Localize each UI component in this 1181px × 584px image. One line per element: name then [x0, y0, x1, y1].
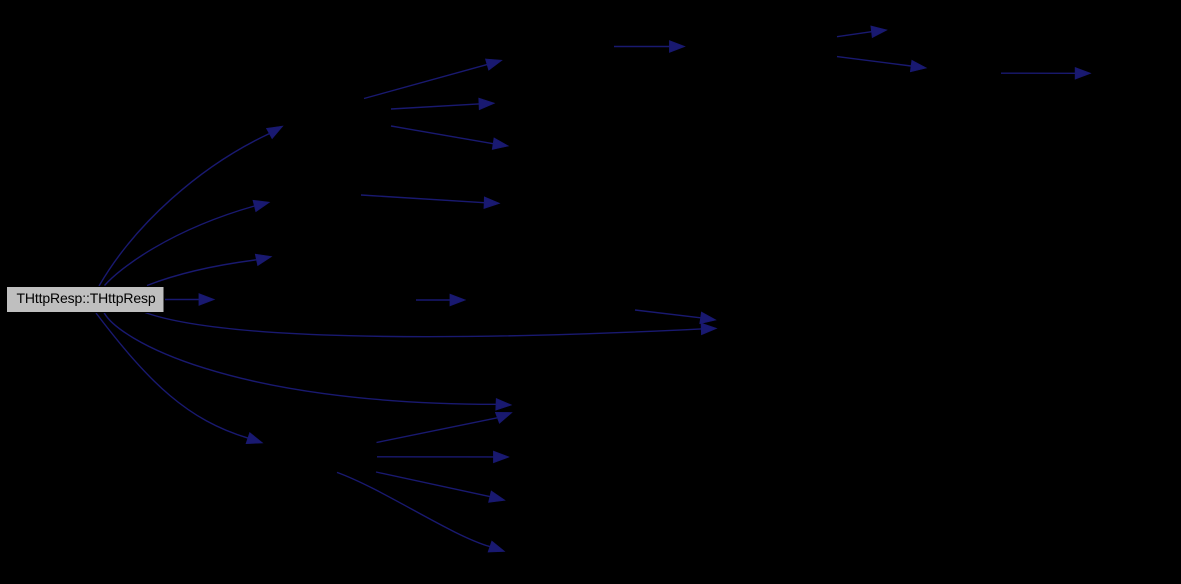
edge B to L (slight down)	[635, 310, 716, 324]
edge fan out 3 (down-right)	[376, 472, 505, 502]
edge M2 out (horizontal long)	[361, 195, 500, 209]
edge main to node K (long swoop)	[104, 313, 512, 411]
edge fan out 2 (horizontal)	[377, 451, 509, 463]
edge main to node A (short horizontal arrow)	[165, 294, 215, 306]
edge main to fan node (down curve)	[96, 313, 263, 444]
edge main to node M2 (mid curve)	[105, 200, 270, 285]
edge R3 out (horizontal)	[1001, 67, 1091, 79]
edge M1 out 3 (down-right)	[391, 126, 509, 150]
edge M1 out 2 (horizontal)	[391, 98, 495, 110]
edge R2 out up	[837, 26, 887, 38]
edge R1 to R2 (horizontal)	[614, 41, 685, 53]
edge main to node M3 (short diagonal)	[147, 254, 272, 285]
edge fan out 4 (steep down)	[337, 472, 505, 552]
edge R2 out down	[837, 57, 927, 72]
edge M1 out 1 (up-right)	[364, 59, 502, 99]
edge A to B (short horizontal)	[416, 294, 466, 306]
edge main to node L (longest swoop)	[145, 313, 717, 337]
edge main to node M1 (top curve)	[99, 126, 283, 286]
edge fan out 1 (up-right)	[377, 412, 513, 442]
svg-text:THttpResp::THttpResp: THttpResp::THttpResp	[16, 290, 155, 306]
